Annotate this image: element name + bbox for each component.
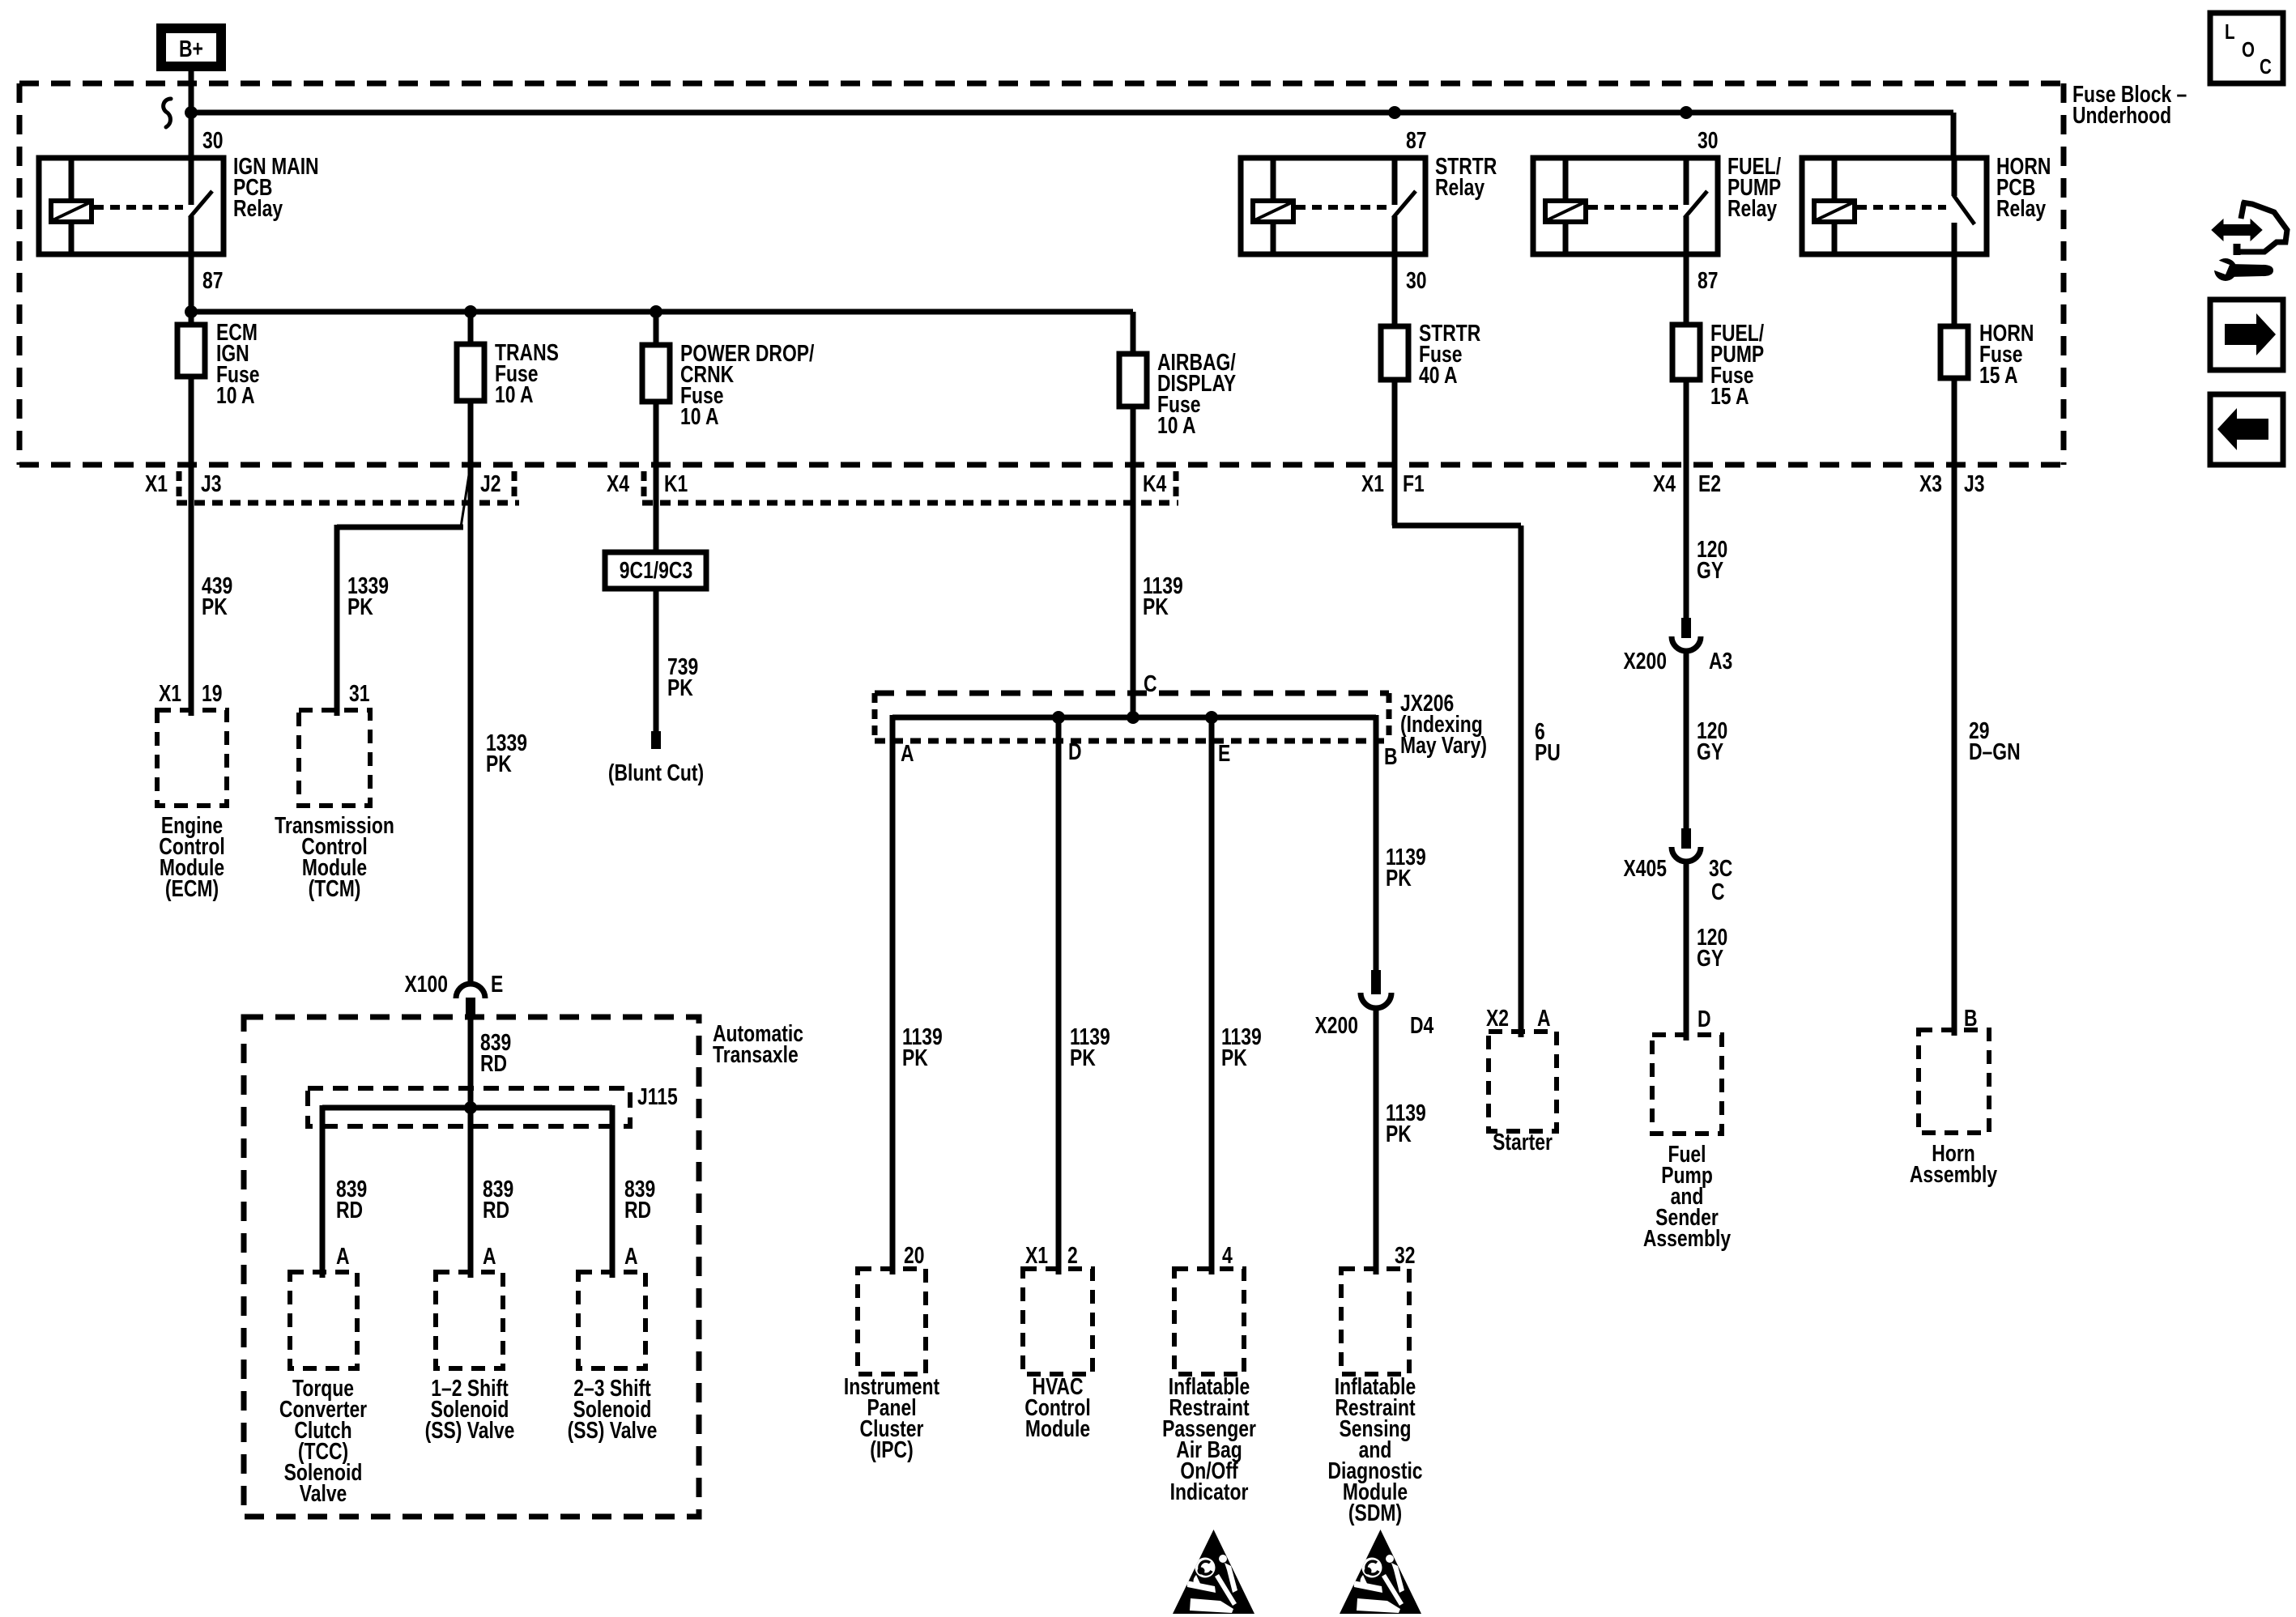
svg-text:PK: PK (486, 750, 512, 777)
wire 1139 PK AIRBAG fuse to JX206 (1131, 406, 1136, 717)
fuse HORN 15A (1952, 254, 1957, 326)
svg-text:(TCM): (TCM) (309, 874, 361, 901)
svg-text:PK: PK (1386, 864, 1412, 891)
svg-text:B: B (1964, 1004, 1978, 1031)
wire 1339 PK to TCM (334, 525, 340, 716)
svg-text:32: 32 (1395, 1241, 1415, 1268)
svg-text:X2: X2 (1486, 1004, 1509, 1031)
junction dot B+ tap (185, 106, 198, 119)
fuse AIRBAG DISPLAY 10A (1119, 354, 1147, 406)
svg-text:10 A: 10 A (216, 381, 255, 408)
junction dot C input (1127, 711, 1139, 724)
svg-text:D: D (1068, 738, 1082, 764)
connector X200 D4 cup symbol (1361, 993, 1391, 1008)
svg-text:15 A: 15 A (1710, 382, 1749, 409)
adjust icon hand with arrow and wrench (2236, 202, 2287, 255)
svg-text:15 A: 15 A (1979, 361, 2018, 388)
fuse POWER DROP CRNK 10A (654, 312, 659, 345)
svg-text:9C1/9C3: 9C1/9C3 (620, 556, 692, 583)
relay HORN PCB (1802, 158, 1987, 254)
svg-text:J3: J3 (201, 470, 221, 496)
connector tick K4 (1174, 471, 1179, 499)
svg-text:30: 30 (202, 126, 223, 153)
wire 839 RD to TCC valve (320, 1105, 326, 1278)
wire 839 RD to 2-3 shift valve (610, 1105, 616, 1278)
svg-text:Relay: Relay (1727, 194, 1778, 221)
svg-text:10 A: 10 A (495, 381, 534, 407)
junction box 9C1/9C3 (605, 552, 706, 589)
svg-text:K1: K1 (664, 470, 688, 496)
relay FUEL PUMP (1533, 158, 1718, 254)
svg-text:10 A: 10 A (680, 402, 719, 429)
splice bus wire JX206 (892, 715, 1376, 721)
svg-text:20: 20 (904, 1241, 924, 1268)
svg-text:X200: X200 (1315, 1011, 1358, 1038)
svg-text:X405: X405 (1624, 854, 1667, 881)
junction dot POWER DROP fuse (650, 305, 662, 318)
svg-text:F1: F1 (1403, 470, 1425, 496)
svg-text:E: E (491, 970, 503, 997)
pointer icon arrow right box (2210, 300, 2283, 370)
connector tick X4-K1 (641, 471, 647, 499)
fuse FUEL PUMP 15A (1684, 254, 1689, 325)
svg-text:Module: Module (1025, 1415, 1090, 1441)
wire 839 RD into transaxle (468, 1017, 474, 1108)
svg-text:A: A (483, 1242, 496, 1269)
svg-text:Valve: Valve (300, 1479, 347, 1506)
svg-text:31: 31 (349, 679, 369, 706)
svg-text:Assembly: Assembly (1910, 1160, 1998, 1187)
svg-text:J2: J2 (480, 470, 501, 496)
module box HVAC Control Module (1023, 1269, 1093, 1374)
svg-text:B+: B+ (179, 35, 203, 62)
svg-text:19: 19 (202, 679, 222, 706)
fuse TRANS 10A (468, 312, 474, 344)
wire 1139 PK to IPC (890, 715, 896, 1274)
module box Transmission Control Module (299, 710, 370, 806)
svg-text:30: 30 (1698, 126, 1718, 153)
svg-text:B: B (1384, 743, 1398, 769)
blunt cut stub (651, 731, 661, 749)
svg-text:PK: PK (202, 593, 228, 619)
module box Fuel Pump and Sender Assembly (1652, 1035, 1722, 1134)
svg-text:Relay: Relay (1996, 194, 2047, 221)
wire B+ down to bus (189, 71, 194, 158)
module box Instrument Panel Cluster (858, 1269, 926, 1374)
svg-text:J115: J115 (637, 1083, 678, 1109)
svg-text:Assembly: Assembly (1643, 1224, 1732, 1251)
fuse bus wire (191, 309, 1133, 315)
wire 1139 PK to air bag indicator (1209, 715, 1215, 1274)
airbag warning triangle indicator (1173, 1530, 1254, 1614)
connector X100 stub (466, 998, 475, 1019)
connector X405 3C stub (1681, 828, 1691, 849)
svg-text:Starter: Starter (1493, 1128, 1553, 1155)
svg-text:(Blunt Cut): (Blunt Cut) (608, 759, 704, 785)
svg-text:X1: X1 (145, 470, 168, 496)
wire 1339 PK TRANS fuse to X100 (468, 401, 474, 983)
wire POWER DROP fuse to 9C1/9C3 (654, 402, 659, 552)
svg-text:Relay: Relay (233, 194, 283, 221)
connector tick J2 (512, 471, 518, 499)
junction dot STRTR branch (1388, 106, 1401, 119)
svg-text:A: A (624, 1242, 638, 1269)
junction dot TRANS fuse (464, 305, 477, 318)
wire TCM branch horizontal (337, 525, 463, 530)
svg-text:X200: X200 (1624, 647, 1667, 674)
valve box 1-2 shift solenoid (436, 1272, 503, 1368)
svg-text:PK: PK (1070, 1044, 1096, 1070)
connector X200 D4 stub (1371, 970, 1381, 994)
svg-text:L: L (2225, 20, 2235, 44)
wire 1139 PK to X200 D4 (1374, 715, 1379, 972)
svg-text:D4: D4 (1410, 1011, 1434, 1038)
wire 1139 PK to SDM (1374, 1008, 1379, 1274)
wire 1139 PK to HVAC (1056, 715, 1062, 1274)
fuse STRTR 40A (1392, 254, 1398, 326)
splice JX206 dashed strip (875, 691, 1389, 696)
svg-text:40 A: 40 A (1419, 361, 1458, 388)
valve box 2-3 shift solenoid (578, 1272, 645, 1368)
fuse ECM IGN 10A (177, 325, 205, 377)
svg-text:K4: K4 (1143, 470, 1167, 496)
svg-text:X3: X3 (1919, 470, 1942, 496)
fuse block underhood dashed boundary (19, 81, 2064, 87)
wire 739 PK to blunt cut (654, 589, 659, 731)
wire HORN relay feed from bus (1951, 113, 1957, 158)
pointer icon arrow left box (2210, 394, 2283, 465)
svg-text:A: A (1537, 1004, 1551, 1031)
svg-text:PK: PK (1221, 1044, 1247, 1070)
svg-text:O: O (2242, 38, 2255, 62)
valve box TCC solenoid (290, 1272, 357, 1368)
svg-text:PU: PU (1535, 738, 1561, 765)
svg-text:PK: PK (667, 674, 693, 700)
module box SDM (1341, 1269, 1409, 1374)
svg-text:RD: RD (483, 1196, 509, 1223)
svg-text:A: A (336, 1242, 350, 1269)
svg-text:May Vary): May Vary) (1400, 731, 1487, 758)
svg-text:X100: X100 (405, 970, 448, 997)
relay STRTR (1241, 158, 1425, 254)
wire 29 D-GN horn fuse to horn (1952, 378, 1957, 1036)
svg-text:87: 87 (1406, 126, 1426, 153)
top feed bus wire (191, 110, 1953, 116)
svg-text:X4: X4 (607, 470, 629, 496)
wire 439 PK fuse to ECM (189, 377, 194, 716)
connector X200 A3 stub (1681, 618, 1691, 638)
svg-text:D–GN: D–GN (1969, 738, 2021, 764)
svg-text:2: 2 (1067, 1241, 1078, 1268)
svg-text:(ECM): (ECM) (165, 874, 219, 901)
svg-text:A3: A3 (1709, 647, 1732, 674)
wire to AIRBAG fuse (1131, 312, 1136, 354)
svg-text:Indicator: Indicator (1170, 1478, 1249, 1504)
module box Engine Control Module (157, 710, 227, 806)
svg-text:RD: RD (480, 1049, 507, 1076)
module box Horn Assembly (1919, 1030, 1989, 1133)
relay IGN MAIN PCB (39, 158, 224, 254)
svg-text:A: A (901, 739, 914, 766)
junction dot FUEL PUMP branch (1680, 106, 1693, 119)
svg-text:Underhood: Underhood (2072, 101, 2171, 128)
wire 839 RD to 1-2 shift valve (468, 1108, 474, 1278)
svg-text:C: C (2260, 55, 2272, 79)
module box passenger air bag indicator (1174, 1269, 1244, 1374)
svg-text:(SS) Valve: (SS) Valve (568, 1416, 658, 1443)
wire jog at J2 to TCM branch (461, 465, 471, 527)
svg-text:30: 30 (1406, 266, 1426, 293)
connector X405 3C cup symbol (1672, 847, 1701, 862)
svg-text:GY: GY (1697, 944, 1723, 971)
svg-text:RD: RD (336, 1196, 363, 1223)
svg-text:X4: X4 (1653, 470, 1676, 496)
svg-text:Relay: Relay (1435, 173, 1485, 200)
svg-text:X1: X1 (159, 679, 181, 706)
svg-text:PK: PK (1143, 593, 1169, 619)
svg-text:X1: X1 (1025, 1241, 1048, 1268)
location code LOC box (2210, 13, 2283, 83)
svg-text:87: 87 (202, 266, 223, 293)
svg-text:Transaxle: Transaxle (713, 1040, 799, 1067)
wire 120 GY to X405 (1684, 651, 1689, 830)
junction dot J115 (464, 1101, 477, 1114)
svg-text:(IPC): (IPC) (870, 1436, 913, 1462)
svg-text:(SS) Valve: (SS) Valve (425, 1416, 515, 1443)
automatic transaxle dashed boundary (244, 1017, 699, 1517)
wire FUEL PUMP fuse to X200 A3 (1684, 380, 1689, 619)
connector X100 cap symbol (456, 984, 485, 998)
connector strip J3-J2 dashed bottom (177, 500, 519, 506)
svg-text:E2: E2 (1698, 470, 1721, 496)
wire 120 GY to fuel pump (1684, 862, 1689, 1040)
connector tick X1-J3 (177, 471, 182, 499)
svg-text:PK: PK (1386, 1120, 1412, 1147)
fusible hop symbol at B+ tap (164, 99, 171, 127)
splice bus wire J115 (322, 1105, 612, 1111)
svg-text:C: C (1711, 878, 1725, 904)
svg-text:RD: RD (624, 1196, 651, 1223)
junction dot E branch (1205, 711, 1218, 724)
wire IGN MAIN 87 to fuse bus (189, 254, 194, 325)
splice J115 dashed box (308, 1088, 630, 1126)
connector X200 A3 cup symbol (1672, 636, 1701, 651)
battery feed B+ symbol (161, 28, 221, 66)
svg-text:87: 87 (1698, 266, 1718, 293)
svg-text:X1: X1 (1361, 470, 1384, 496)
junction dot ECM IGN fuse (185, 305, 198, 318)
module box Starter (1489, 1032, 1557, 1131)
svg-text:D: D (1698, 1005, 1711, 1032)
svg-text:PK: PK (347, 593, 373, 619)
svg-text:J3: J3 (1964, 470, 1984, 496)
svg-text:(SDM): (SDM) (1348, 1499, 1402, 1526)
svg-text:GY: GY (1697, 556, 1723, 583)
junction dot D branch (1052, 711, 1065, 724)
svg-text:PK: PK (902, 1044, 928, 1070)
airbag warning triangle SDM (1340, 1530, 1421, 1614)
wire STRTR fuse to starter (1392, 380, 1398, 526)
svg-text:10 A: 10 A (1157, 411, 1196, 438)
svg-text:E: E (1218, 739, 1230, 766)
svg-text:GY: GY (1697, 738, 1723, 764)
svg-text:4: 4 (1222, 1241, 1233, 1268)
connector strip K1-K4 dashed bottom (642, 500, 1178, 506)
